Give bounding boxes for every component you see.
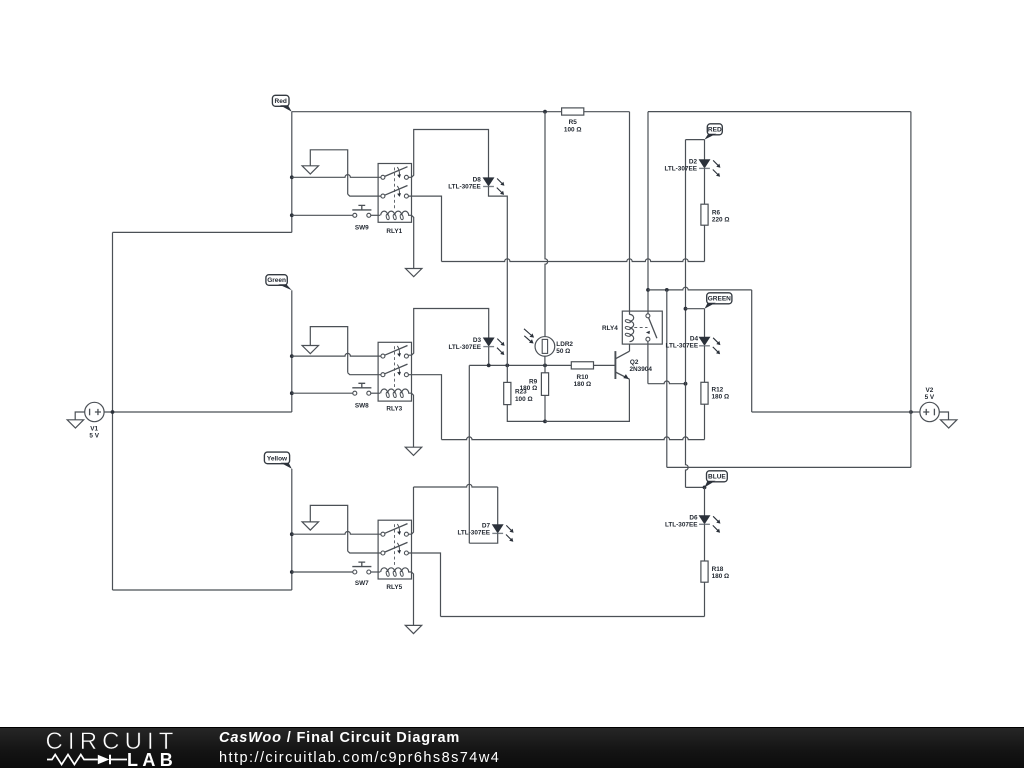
- node junction BLUE net: [684, 382, 688, 386]
- wire hook to RLY5 contact 2: [348, 551, 381, 553]
- wire right rectangle top: [648, 111, 911, 113]
- wire R9 bottom to emitter net: [544, 395, 546, 421]
- led D3: [483, 338, 494, 346]
- wire Red to RLY1 contact 1: [292, 175, 381, 178]
- wire Green vertical drop: [291, 290, 293, 412]
- wire RLY3 contact 2 to bus: [408, 375, 441, 440]
- wire BLUE corner to flag node: [686, 486, 705, 488]
- svg-text:RED: RED: [708, 127, 722, 134]
- resistor R10: [571, 362, 593, 369]
- svg-text:220 Ω: 220 Ω: [712, 217, 730, 224]
- led D7: [492, 525, 503, 533]
- svg-text:RLY1: RLY1: [386, 228, 402, 235]
- wire R5 right to RLY4 coil drop: [584, 111, 630, 113]
- wire left rail from Red section down to Yellow bottom: [112, 232, 114, 590]
- node junction LDR R9 base: [543, 363, 547, 367]
- wire base net horizontal: [469, 364, 571, 366]
- wire Green to RLY3 contact 1: [292, 353, 381, 356]
- wire Red section left turn: [113, 231, 292, 233]
- wire Red vertical drop: [291, 112, 293, 233]
- wire V2 negative to ground: [939, 412, 948, 420]
- wire D7 loop top: [414, 484, 498, 487]
- svg-text:GREEN: GREEN: [708, 296, 731, 303]
- svg-text:R5: R5: [569, 119, 578, 126]
- ground hook Green section: [310, 327, 347, 373]
- wire bus Red lower: [442, 259, 705, 262]
- wire D8 net down to base: [506, 262, 508, 366]
- wire bus end up to R12: [704, 404, 706, 439]
- svg-text:180 Ω: 180 Ω: [574, 381, 592, 388]
- node junction R5 LDR tap: [543, 110, 547, 114]
- relay RLY5: [378, 520, 411, 579]
- wire V1 positive to Green rail: [104, 411, 292, 413]
- voltage source V2: [920, 402, 939, 421]
- wire RLY3 contact 1 up to D3: [408, 309, 488, 356]
- wire RED node branch left: [686, 139, 705, 141]
- resistor R6: [701, 204, 708, 225]
- svg-text:100 Ω: 100 Ω: [515, 396, 533, 403]
- wire RLY3 coil to ground: [412, 393, 414, 447]
- svg-text:SW7: SW7: [355, 580, 369, 587]
- wire RLY5 coil to ground: [412, 572, 414, 625]
- svg-text:RLY4: RLY4: [602, 325, 618, 332]
- node junction Green to switch: [290, 391, 294, 395]
- wire Yellow vertical drop: [291, 469, 293, 590]
- svg-text:BLUE: BLUE: [708, 474, 726, 481]
- wire RLY1 coil to ground: [412, 215, 414, 268]
- wire SW8 to RLY3 coil: [371, 392, 380, 394]
- svg-text:RLY5: RLY5: [386, 584, 402, 591]
- wire R23 bottom to emitter net: [507, 405, 545, 422]
- wire D2 to R6: [704, 168, 706, 204]
- wire V2 net bottom link: [752, 411, 911, 413]
- wire Q2 collector to RLY4 coil: [629, 344, 631, 351]
- wire V1 negative to ground: [75, 412, 85, 420]
- node junction Red to switch: [290, 213, 294, 217]
- node junction R9 emitter net: [543, 419, 547, 423]
- svg-text:R18: R18: [712, 566, 724, 573]
- flag BLUE: [707, 471, 728, 482]
- ground V2: [941, 420, 957, 428]
- node junction V2 net branch: [665, 288, 669, 292]
- svg-text:SW8: SW8: [355, 402, 369, 409]
- node junction Red to relay contact: [290, 175, 294, 179]
- wire SW9 to RLY1 coil: [371, 214, 380, 216]
- wire Yellow to SW7: [292, 571, 353, 573]
- ground hook Yellow section: [310, 505, 347, 551]
- switch SW9: [353, 213, 357, 217]
- ground V1: [67, 420, 83, 428]
- svg-text:D3: D3: [473, 337, 482, 344]
- svg-text:5 V: 5 V: [925, 394, 935, 401]
- photoresistor LDR2: [545, 112, 548, 337]
- svg-text:D8: D8: [473, 177, 482, 184]
- flag Yellow: [264, 452, 289, 464]
- wire bus end up to R6: [704, 225, 706, 261]
- wire bus Green lower: [442, 437, 705, 440]
- wire Green to SW8: [292, 392, 353, 394]
- relay RLY1: [378, 164, 411, 223]
- svg-text:50 Ω: 50 Ω: [556, 348, 570, 355]
- resistor R18: [701, 561, 708, 582]
- wire Red to SW9: [292, 214, 353, 216]
- svg-text:LTL-307EE: LTL-307EE: [457, 530, 490, 537]
- logo resistor and diode symbol: [46, 753, 128, 766]
- wire RLY1 contact 1 up to D8: [408, 130, 488, 178]
- wire emitter net to Q2: [545, 379, 629, 421]
- wire D7 cathode to loop bottom: [469, 533, 497, 543]
- wire hook to RLY3 contact 2: [348, 373, 381, 375]
- flag RED: [707, 124, 722, 135]
- ground RLY1: [406, 269, 422, 277]
- svg-text:LTL-307EE: LTL-307EE: [448, 184, 481, 191]
- wire SW7 to RLY5 coil: [371, 571, 380, 573]
- resistor R9: [544, 365, 546, 372]
- wire R10 to Q2 base: [594, 364, 615, 366]
- flag Green: [266, 275, 287, 286]
- wire V2 positive to right rail: [911, 411, 920, 413]
- wire GREEN branch to flag node: [686, 308, 705, 310]
- svg-text:R12: R12: [712, 386, 724, 393]
- svg-text:100 Ω: 100 Ω: [564, 126, 582, 133]
- svg-text:D2: D2: [689, 158, 698, 165]
- wire RLY4 top contact drop: [647, 112, 649, 314]
- resistor R12: [701, 382, 708, 404]
- switch SW7: [353, 570, 357, 574]
- resistor R5: [562, 108, 584, 115]
- led D4: [699, 337, 710, 345]
- wire RED BLUE long vertical: [686, 140, 689, 488]
- svg-text:180 Ω: 180 Ω: [712, 573, 730, 580]
- led D2: [699, 160, 710, 168]
- svg-text:LTL-307EE: LTL-307EE: [665, 522, 698, 529]
- ground RLY5: [405, 625, 421, 633]
- transistor Q2: [614, 351, 616, 379]
- node junction D3 base: [487, 363, 491, 367]
- wire hook to RLY1 contact 2: [348, 194, 381, 196]
- resistor R23: [506, 365, 508, 382]
- CircuitLab logo text: [46, 728, 179, 756]
- svg-text:2N3904: 2N3904: [630, 366, 653, 373]
- ground RLY3: [405, 447, 421, 455]
- wire Yellow to RLY5 contact 1: [292, 532, 381, 535]
- wire branch to V2 net: [648, 287, 752, 290]
- wire D4 to R12: [704, 346, 706, 383]
- wire RLY4 contact to BLUE net: [648, 381, 686, 384]
- svg-text:R6: R6: [712, 209, 721, 216]
- svg-text:V1: V1: [90, 426, 98, 433]
- wire V2 net right end down: [751, 290, 753, 412]
- node junction V1 rail: [111, 410, 115, 414]
- svg-text:LTL-307EE: LTL-307EE: [448, 344, 481, 351]
- switch SW8: [353, 391, 357, 395]
- node junction RLY4 contact branch: [646, 288, 650, 292]
- wire Yellow bottom run to R18: [441, 616, 705, 618]
- wire BLUE node to D6: [704, 487, 706, 515]
- svg-text:R10: R10: [577, 374, 589, 381]
- wire V2 net down: [666, 290, 668, 468]
- caption: [219, 730, 460, 746]
- svg-text:D7: D7: [482, 522, 491, 529]
- relay RLY3: [378, 342, 411, 401]
- svg-text:D4: D4: [690, 335, 699, 342]
- node junction GREEN branch: [684, 307, 688, 311]
- ground hook Red section: [310, 150, 347, 194]
- svg-text:Green: Green: [267, 277, 286, 284]
- node junction V2 rail: [909, 410, 913, 414]
- wire LDR2 bottom to base net: [544, 356, 546, 365]
- svg-text:LTL-307EE: LTL-307EE: [666, 343, 699, 350]
- node junction Green to relay contact: [290, 354, 294, 358]
- node junction BLUE flag: [703, 486, 707, 490]
- flag Red: [272, 95, 289, 106]
- svg-text:V2: V2: [925, 387, 933, 394]
- svg-text:180 Ω: 180 Ω: [712, 394, 730, 401]
- wire V2 bottom run: [667, 466, 911, 468]
- svg-text:Q2: Q2: [630, 359, 639, 366]
- node junction Yellow to relay contact: [290, 532, 294, 536]
- node junction Yellow to switch: [290, 570, 294, 574]
- wire GREEN node to D4: [704, 309, 706, 337]
- svg-text:5 V: 5 V: [89, 433, 99, 440]
- relay RLY4: [622, 311, 662, 344]
- wire R18 bottom: [704, 582, 706, 616]
- svg-text:RLY3: RLY3: [386, 406, 402, 413]
- wire RLY4 coil top drop: [629, 112, 631, 315]
- wire D6 to R18: [704, 524, 706, 561]
- wire RED node to D2: [704, 140, 706, 160]
- svg-text:180 Ω: 180 Ω: [520, 385, 538, 392]
- wire RLY4 bottom contact down: [647, 341, 649, 384]
- wire D7 loop left vertical to base net: [468, 365, 470, 543]
- node junction D8 R23 base: [505, 363, 509, 367]
- led D6: [699, 516, 710, 524]
- wire Yellow bottom return: [113, 589, 292, 591]
- led D8: [483, 178, 494, 186]
- svg-text:LTL-307EE: LTL-307EE: [664, 166, 697, 173]
- wire right rail down to V2 bottom run: [910, 112, 912, 468]
- wire Red flag top run to R5: [292, 111, 562, 113]
- svg-text:D6: D6: [689, 515, 698, 522]
- footer bar: [0, 727, 1024, 768]
- wire D7 anode down: [497, 487, 499, 525]
- wire RLY1 contact 2 to bus: [408, 196, 441, 261]
- wire RLY5 contact 1 up to D7 loop: [408, 487, 413, 534]
- wire RLY5 contact 2 to R18 run: [408, 553, 440, 617]
- wire D8 cathode jog down: [489, 186, 508, 261]
- svg-text:Yellow: Yellow: [267, 456, 288, 463]
- wire D3 cathode to base net: [488, 347, 490, 366]
- voltage source V1: [85, 402, 104, 421]
- svg-text:SW9: SW9: [355, 225, 369, 232]
- flag GREEN: [707, 293, 732, 304]
- svg-text:Red: Red: [275, 98, 287, 105]
